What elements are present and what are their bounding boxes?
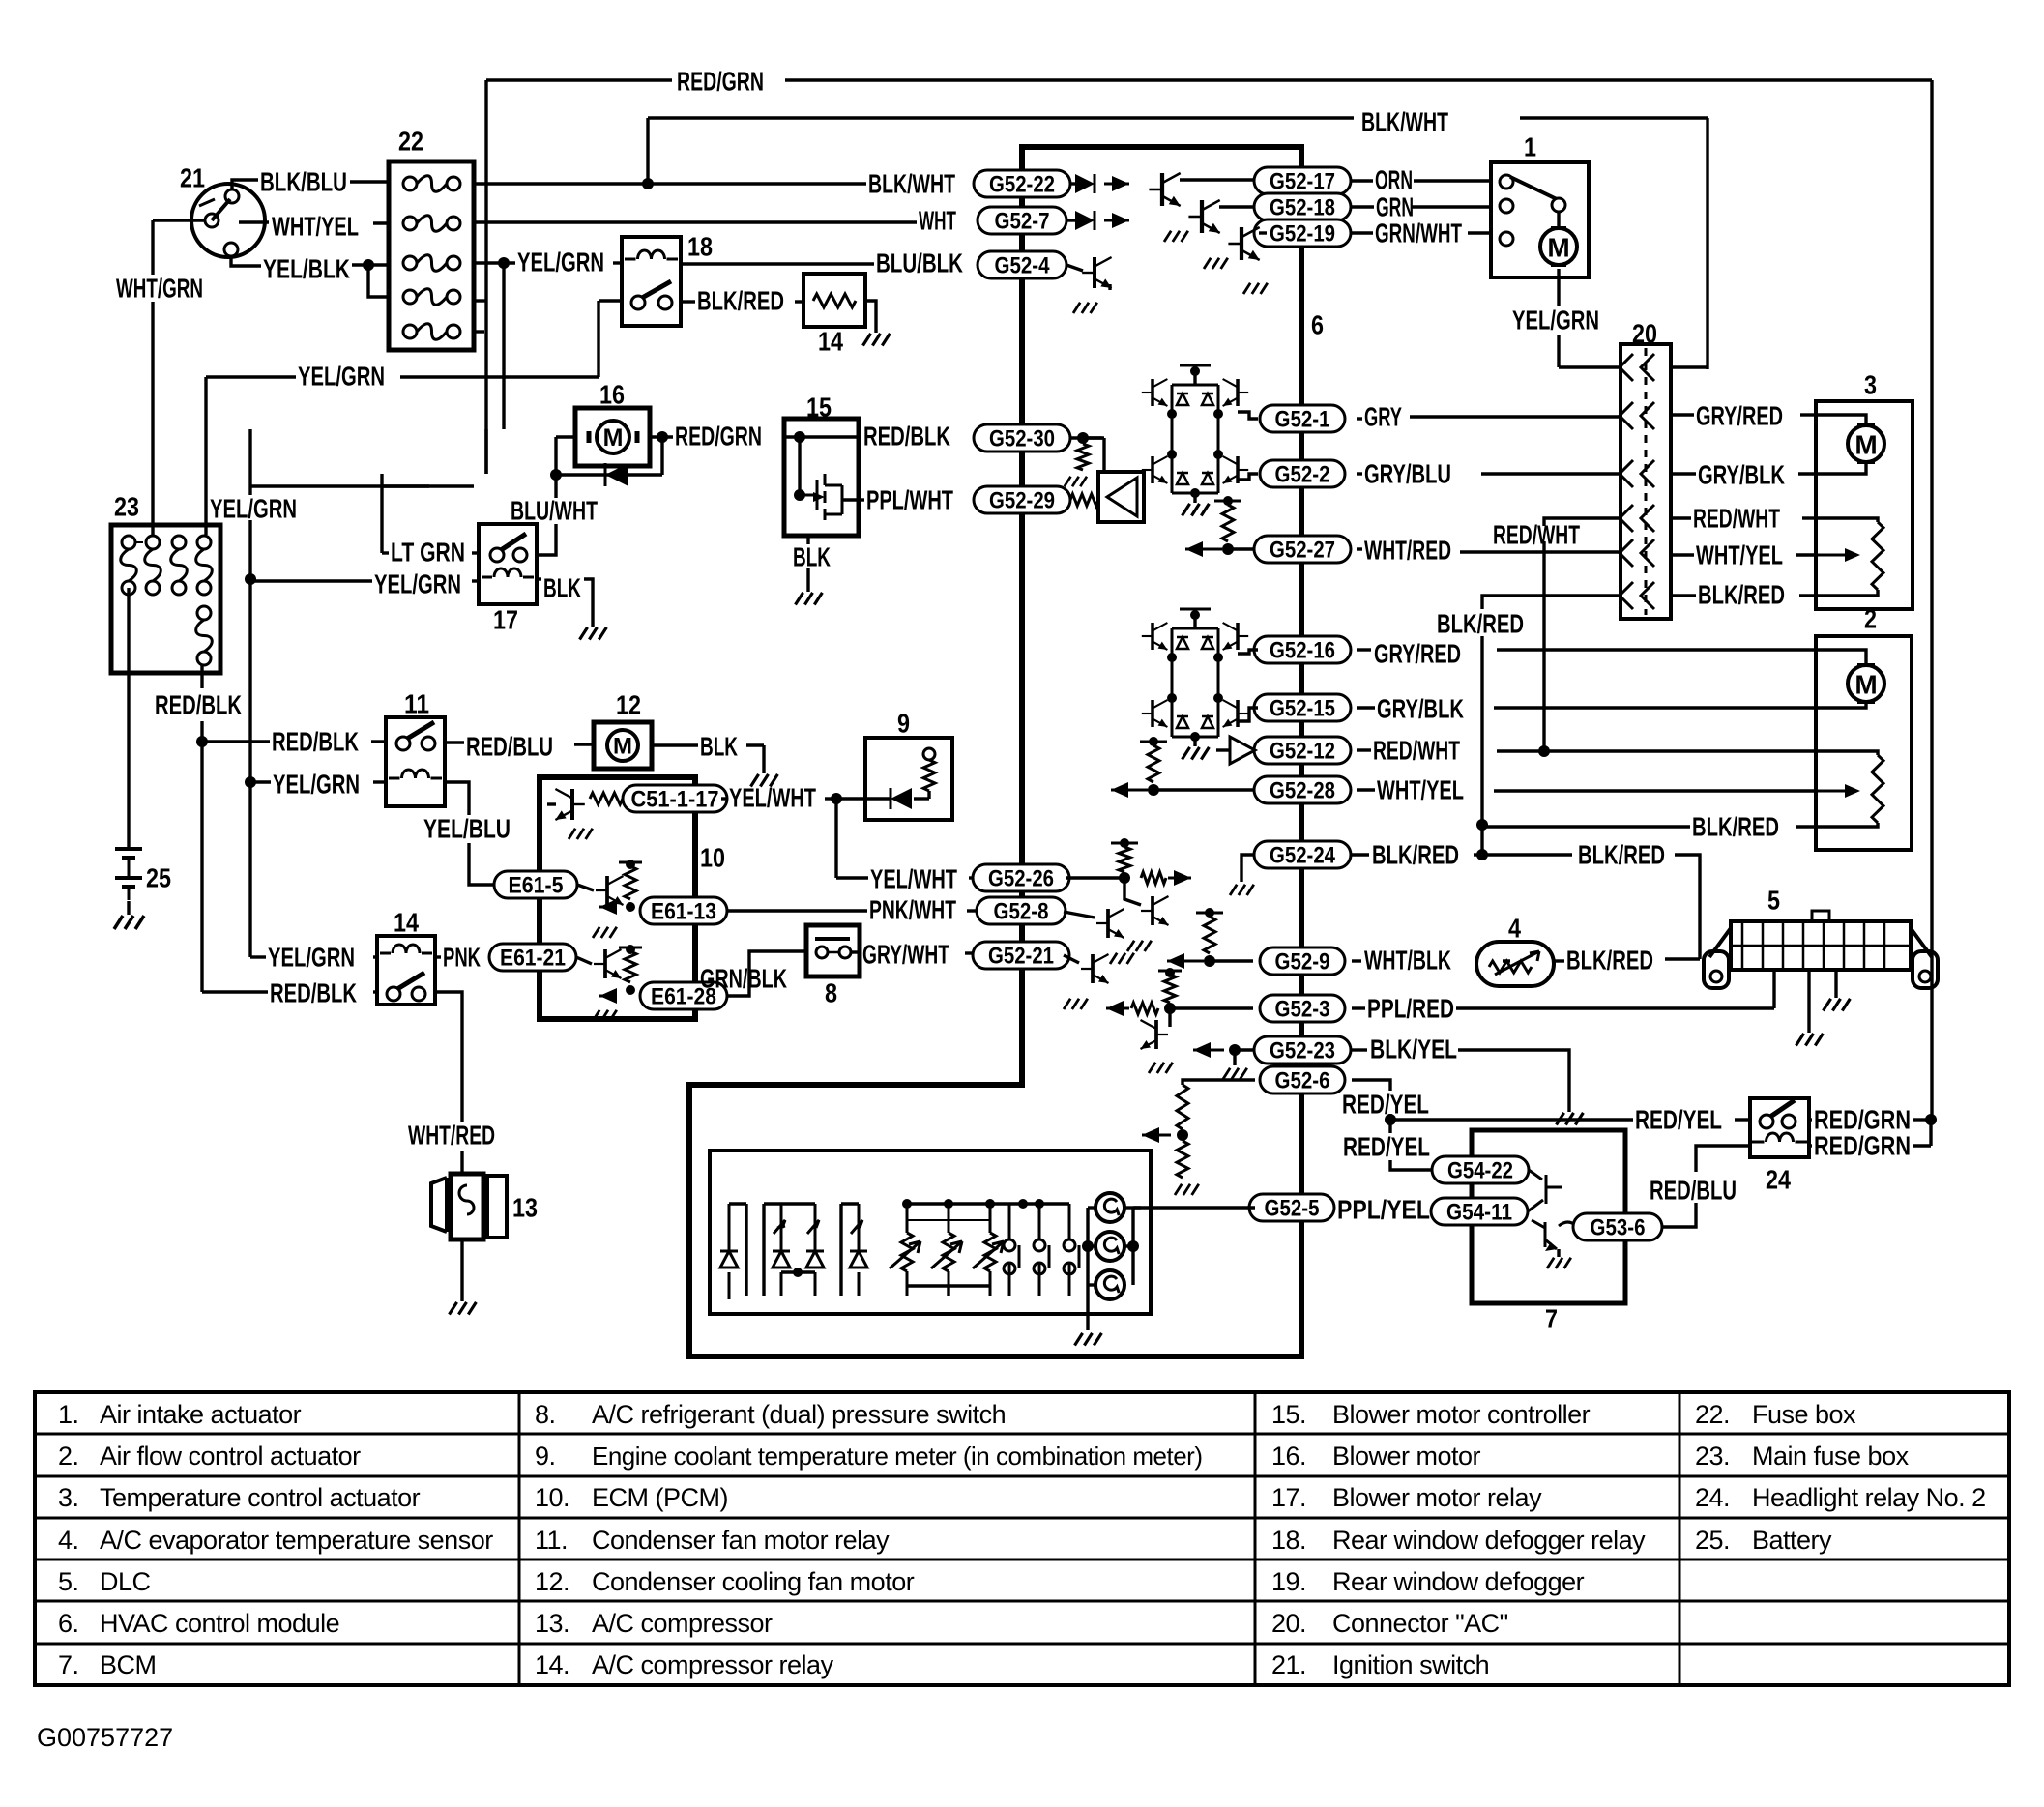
svg-text:BLK/WHT: BLK/WHT (1361, 107, 1448, 137)
svg-text:LT GRN: LT GRN (391, 538, 465, 568)
chevrons row y=380 (1620, 354, 1654, 381)
svg-text:PPL/RED: PPL/RED (1367, 994, 1454, 1024)
wire YEL/GRN long horizontal (206, 375, 296, 378)
svg-text:Main fuse box: Main fuse box (1752, 1442, 1910, 1471)
wire WHT/RED G52-27 to connector (1357, 547, 1362, 550)
svg-text:GRY/WHT: GRY/WHT (862, 940, 949, 970)
pill G52-15 (1254, 694, 1351, 721)
wire BLK/WHT fuse1 to module (474, 182, 646, 185)
svg-text:18.: 18. (1271, 1526, 1306, 1555)
pill C51-1-17 (623, 785, 727, 812)
wire RED/YEL to relay 24 (1390, 1118, 1633, 1121)
svg-text:WHT/BLK: WHT/BLK (1364, 946, 1451, 976)
pill G53-6 (1573, 1213, 1662, 1240)
headlight relay No.2 24 (1750, 1098, 1809, 1157)
svg-text:17.: 17. (1271, 1483, 1306, 1512)
wire RED/WHT branch down left of connector (1544, 518, 1621, 526)
svg-text:5.: 5. (58, 1567, 79, 1596)
wire BLK/RED connector to actuator 3 (1671, 594, 1696, 597)
wire YEL/GRN to relay 14 coil (250, 955, 266, 958)
wire BLK relay17 to ground (537, 577, 541, 580)
svg-text:22: 22 (398, 127, 423, 157)
wire BLK/RED G52-24 row (1352, 853, 1369, 856)
svg-text:GRY/RED: GRY/RED (1374, 639, 1461, 669)
svg-text:23: 23 (114, 492, 139, 522)
svg-text:G52-2: G52-2 (1275, 462, 1330, 488)
svg-text:12: 12 (616, 690, 641, 720)
pill G54-11 (1431, 1198, 1528, 1225)
wire WHT/YEL (239, 220, 269, 223)
transistor at G52-8 (1064, 912, 1095, 918)
MOSFET inside controller 15 (800, 474, 842, 520)
wire WHT/BLK G52-9 to sensor 4 (1352, 959, 1361, 962)
resistor arrow motif at G52-27 (1222, 543, 1234, 555)
pill G52-19 (1254, 219, 1351, 247)
wire GRY/RED to actuator 2 (1357, 648, 1371, 651)
svg-text:2: 2 (1864, 604, 1877, 634)
svg-text:BLK/RED: BLK/RED (1372, 840, 1459, 870)
svg-text:G52-16: G52-16 (1270, 638, 1335, 664)
svg-text:6: 6 (1311, 310, 1324, 340)
pill E61-28 (640, 982, 727, 1009)
svg-text:G52-3: G52-3 (1275, 997, 1330, 1023)
wire YEL/GRN actuator1 to connector 20 (1557, 269, 1560, 306)
svg-text:YEL/GRN: YEL/GRN (273, 770, 360, 800)
svg-text:13: 13 (512, 1193, 538, 1223)
svg-text:12.: 12. (535, 1567, 569, 1596)
svg-text:YEL/BLK: YEL/BLK (263, 254, 350, 284)
svg-text:YEL/BLU: YEL/BLU (423, 814, 511, 844)
DLC grounds (1807, 970, 1810, 1033)
svg-text:BLK/RED: BLK/RED (1437, 609, 1524, 639)
connector AC 20 (1621, 344, 1671, 619)
condenser cooling fan motor 12 (594, 722, 652, 769)
svg-text:BLU/WHT: BLU/WHT (511, 496, 598, 526)
svg-text:RED/WHT: RED/WHT (1693, 504, 1780, 534)
svg-text:Air flow control actuator: Air flow control actuator (100, 1442, 361, 1471)
svg-text:14: 14 (818, 327, 843, 357)
triangle at G52-12 (1230, 737, 1255, 764)
pill G52-1 (1260, 405, 1345, 432)
svg-text:M: M (1547, 233, 1569, 263)
wire RED/BLK controller to G52-30 (859, 435, 861, 438)
wire GRY/BLK to actuator 2 (1357, 706, 1375, 709)
BCM 7 (1472, 1130, 1625, 1303)
A/C pressure switch 8 (806, 925, 860, 976)
blower motor 16 (575, 408, 650, 466)
pill G52-7 (978, 207, 1066, 234)
panel LED 2 (806, 1204, 824, 1296)
pill G52-16 (1254, 636, 1351, 663)
panel diode 1 (720, 1204, 738, 1299)
resistor arrow motif at G52-28 (1148, 784, 1159, 796)
svg-text:GRY: GRY (1364, 402, 1402, 432)
svg-text:17: 17 (493, 605, 518, 635)
pill G52-30 (974, 424, 1070, 452)
wire WHT/YEL connector to actuator 3 (1671, 553, 1694, 556)
wire WHT/YEL to actuator 2 (1357, 788, 1375, 791)
svg-text:G52-17: G52-17 (1270, 169, 1335, 195)
pill E61-5 (494, 871, 577, 898)
svg-text:2.: 2. (58, 1442, 79, 1471)
H-bridge driver for G52-16/G52-15 (1180, 608, 1211, 611)
svg-text:BLK/BLU: BLK/BLU (260, 167, 347, 197)
svg-text:WHT/RED: WHT/RED (1364, 536, 1451, 566)
svg-text:Connector "AC": Connector "AC" (1332, 1609, 1508, 1638)
wire BLK/RED relay18 to resistor 14 (681, 300, 695, 303)
svg-text:13.: 13. (535, 1609, 569, 1638)
svg-text:BLK/RED: BLK/RED (1698, 580, 1785, 610)
svg-text:BLK/RED: BLK/RED (1692, 812, 1779, 842)
svg-text:GRY/BLU: GRY/BLU (1364, 459, 1451, 489)
wire PNK/WHT to G52-8 (727, 909, 867, 912)
transistor at G52-21 (1064, 955, 1079, 963)
svg-text:C51-1-17: C51-1-17 (631, 787, 719, 813)
A/C compressor relay 14 (377, 936, 435, 1005)
svg-text:A/C refrigerant (dual) pressur: A/C refrigerant (dual) pressure switch (592, 1400, 1006, 1429)
svg-text:G53-6: G53-6 (1591, 1215, 1646, 1241)
svg-text:YEL/GRN: YEL/GRN (374, 569, 461, 599)
fuse F4 in box 22 (403, 290, 417, 304)
svg-text:22.: 22. (1695, 1400, 1730, 1429)
svg-text:PNK: PNK (443, 943, 481, 973)
wire BLK/YEL G52-23 to ground (1352, 1048, 1367, 1051)
wire GRN G52-18 (1352, 205, 1374, 208)
svg-text:G52-6: G52-6 (1275, 1068, 1330, 1094)
wire YEL/BLU relay11 coil to E61-5 (445, 782, 469, 815)
potentiometer in actuator 3 (1816, 518, 1878, 522)
svg-text:Temperature control actuator: Temperature control actuator (100, 1483, 421, 1512)
svg-text:7.: 7. (58, 1650, 79, 1679)
svg-text:PPL/WHT: PPL/WHT (866, 485, 953, 515)
svg-text:Fuse box: Fuse box (1752, 1400, 1856, 1429)
wire BLK/RED sensor 4 to DLC branch (1554, 959, 1564, 962)
svg-text:WHT/YEL: WHT/YEL (1377, 775, 1464, 805)
wire GRN/BLK E61-28 to pressure switch 8 (727, 951, 806, 996)
svg-text:WHT/RED: WHT/RED (408, 1121, 495, 1151)
svg-text:G52-4: G52-4 (995, 253, 1051, 279)
svg-text:1.: 1. (58, 1400, 79, 1429)
wire YEL/GRN to relay 11 coil (250, 780, 271, 783)
svg-text:YEL/GRN: YEL/GRN (1512, 306, 1599, 335)
svg-text:G52-23: G52-23 (1270, 1038, 1335, 1064)
svg-text:BLK: BLK (700, 732, 738, 762)
chevrons row y=430 (1620, 402, 1654, 429)
pill G52-3 (1260, 995, 1345, 1022)
svg-text:16: 16 (599, 380, 625, 410)
fuse in box 23 col x=185 (172, 536, 186, 549)
pill G52-24 (1254, 841, 1351, 868)
svg-text:M: M (1854, 430, 1877, 460)
svg-text:RED/WHT: RED/WHT (1373, 736, 1460, 766)
pill G52-18 (1254, 193, 1351, 220)
svg-text:G52-22: G52-22 (989, 172, 1055, 198)
pill G52-21 (973, 942, 1069, 969)
diode bypass of motor 16 (556, 473, 662, 476)
A/C evaporator temperature sensor 4 (1476, 942, 1554, 986)
resistor to ground at G52-30 (1070, 436, 1102, 439)
svg-text:19.: 19. (1271, 1567, 1306, 1596)
wire GRY/BLU G52-2 to connector (1357, 472, 1362, 475)
transistor at G52-4 (1066, 265, 1083, 271)
svg-text:RED/BLK: RED/BLK (272, 727, 359, 757)
svg-text:A/C compressor: A/C compressor (592, 1609, 773, 1638)
wire BLK/RED to actuator 2 (1482, 825, 1690, 828)
svg-text:WHT/YEL: WHT/YEL (1696, 540, 1783, 570)
wire YEL/GRN vertical to relay coils (248, 429, 251, 495)
svg-text:15.: 15. (1271, 1400, 1306, 1429)
svg-text:WHT: WHT (919, 206, 956, 236)
fuse in box 23 col x=158 (146, 536, 160, 549)
svg-text:DLC: DLC (100, 1567, 151, 1596)
svg-text:11.: 11. (535, 1526, 568, 1555)
panel LED 1 (773, 1204, 790, 1296)
svg-text:Engine coolant temperature met: Engine coolant temperature meter (in com… (592, 1442, 1203, 1471)
svg-text:21.: 21. (1271, 1650, 1306, 1679)
svg-text:G52-28: G52-28 (1270, 778, 1335, 804)
fuse in box 23 col x=133 (122, 536, 135, 549)
svg-text:YEL/GRN: YEL/GRN (517, 248, 604, 277)
svg-text:3: 3 (1864, 370, 1877, 400)
svg-text:G52-7: G52-7 (995, 209, 1050, 235)
wire GRY/BLK connector to actuator 3 (1671, 472, 1696, 475)
wire YEL/GRN to relay 17 coil (250, 579, 372, 582)
pill G52-5 (1249, 1194, 1334, 1221)
chevrons row y=616 (1620, 582, 1654, 609)
wire BLK/RED branch down left of connector (1482, 596, 1621, 609)
svg-text:G52-1: G52-1 (1275, 407, 1330, 433)
svg-text:RED/GRN: RED/GRN (1814, 1131, 1911, 1161)
wire WHT/GRN (153, 219, 205, 221)
svg-text:PPL/YEL: PPL/YEL (1337, 1195, 1430, 1225)
svg-text:Headlight relay No. 2: Headlight relay No. 2 (1752, 1483, 1986, 1512)
wire GRY G52-1 to connector (1357, 417, 1362, 420)
svg-text:RED/GRN: RED/GRN (677, 67, 764, 97)
wire RED/BLK to relay 11 (202, 740, 270, 743)
pill E61-21 (489, 944, 576, 971)
wire RED/BLK from fuse box 23 (200, 665, 203, 688)
ground stub at G52-24 (1241, 855, 1253, 882)
junction YEL/BLK branch to fuse 4 (363, 259, 374, 271)
HVAC control panel box (710, 1151, 1151, 1314)
svg-text:G52-8: G52-8 (994, 899, 1049, 925)
pill G52-26 (973, 864, 1069, 891)
svg-text:YEL/WHT: YEL/WHT (870, 864, 957, 894)
svg-text:BLK: BLK (543, 573, 581, 603)
svg-text:7: 7 (1545, 1304, 1558, 1334)
svg-text:G52-30: G52-30 (989, 426, 1055, 452)
wire GRN/WHT G52-19 (1352, 231, 1373, 234)
pill G52-27 (1254, 536, 1351, 563)
engine coolant temp meter 9 (865, 738, 952, 820)
svg-text:A/C compressor relay: A/C compressor relay (592, 1650, 834, 1679)
svg-text:PNK/WHT: PNK/WHT (869, 895, 956, 925)
svg-text:RED/YEL: RED/YEL (1342, 1090, 1429, 1120)
svg-text:20.: 20. (1271, 1609, 1306, 1638)
transistor and resistor at C51-1-17 (590, 793, 623, 804)
resistor arrow motif at G52-9 (1204, 955, 1215, 967)
fuse in box 23 col x=211 (197, 536, 211, 549)
ECM (PCM) 10 (540, 777, 695, 1019)
wire BLU/WHT relay17 to motor 16 diode (539, 553, 556, 555)
svg-text:RED/GRN: RED/GRN (675, 422, 762, 452)
fuse F3 in box 22 (403, 256, 417, 270)
svg-text:G00757727: G00757727 (37, 1723, 173, 1752)
svg-text:G52-15: G52-15 (1270, 696, 1335, 722)
svg-text:G52-5: G52-5 (1265, 1196, 1320, 1222)
wire ORN G52-17 to actuator 1 (1352, 179, 1373, 182)
wire YEL/GRN net jogs (502, 263, 505, 429)
transistor cluster at E61-21/E61-28 (576, 957, 592, 964)
svg-text:ECM (PCM): ECM (PCM) (592, 1483, 728, 1512)
svg-text:YEL/GRN: YEL/GRN (210, 494, 297, 524)
wire PPL/WHT controller to G52-29 (842, 498, 859, 501)
ignition contacts and lever (225, 189, 239, 203)
panel LED 3 (850, 1204, 867, 1296)
svg-text:5: 5 (1767, 886, 1780, 916)
svg-text:E61-5: E61-5 (509, 873, 564, 899)
svg-text:9.: 9. (535, 1442, 556, 1471)
relay 18 (622, 237, 681, 326)
chevrons row y=536 (1620, 505, 1654, 532)
wire YEL/GRN fuse3 to relay 18 (474, 261, 515, 264)
panel ground (1086, 1285, 1089, 1330)
pill G52-12 (1254, 737, 1351, 764)
pill G52-4 (978, 251, 1066, 278)
svg-text:11: 11 (404, 689, 429, 719)
svg-text:G52-27: G52-27 (1270, 538, 1335, 564)
svg-text:BLK: BLK (793, 542, 831, 572)
svg-text:BLK/YEL: BLK/YEL (1370, 1035, 1457, 1064)
blower motor relay 17 (479, 524, 537, 604)
svg-text:Air intake actuator: Air intake actuator (100, 1400, 302, 1429)
panel switches (1004, 1239, 1015, 1251)
svg-text:M: M (603, 424, 624, 452)
svg-text:RED/BLU: RED/BLU (1650, 1176, 1737, 1206)
svg-text:M: M (1854, 670, 1877, 700)
wire PNK relay14 to E61-21 (435, 955, 441, 958)
svg-text:14: 14 (394, 908, 419, 938)
svg-text:A/C evaporator temperature sen: A/C evaporator temperature sensor (100, 1526, 493, 1555)
svg-text:4: 4 (1508, 914, 1521, 944)
temperature control actuator 3 (1816, 401, 1913, 609)
fuse F2 in box 22 (403, 217, 417, 230)
svg-text:BLU/BLK: BLU/BLK (876, 248, 963, 278)
A/C compressor 13 (431, 1178, 447, 1232)
svg-text:BLK/RED: BLK/RED (697, 286, 784, 316)
svg-text:YEL/GRN: YEL/GRN (298, 362, 385, 392)
transistor cluster at G52-26 (1066, 876, 1122, 879)
svg-text:18: 18 (687, 232, 713, 262)
svg-text:8.: 8. (535, 1400, 556, 1429)
svg-text:HVAC control module: HVAC control module (100, 1609, 339, 1638)
svg-text:M: M (613, 734, 632, 760)
svg-text:WHT/YEL: WHT/YEL (272, 212, 359, 242)
svg-text:G54-22: G54-22 (1447, 1158, 1513, 1184)
wire YEL/BLK (231, 256, 261, 266)
svg-text:24.: 24. (1695, 1483, 1730, 1512)
svg-text:G52-24: G52-24 (1270, 843, 1336, 869)
svg-text:GRY/BLK: GRY/BLK (1698, 460, 1785, 490)
wire WHT/RED relay14 to compressor 13 (435, 992, 462, 1122)
svg-text:10: 10 (700, 843, 725, 873)
svg-text:RED/BLK: RED/BLK (270, 978, 357, 1008)
svg-text:G52-19: G52-19 (1270, 221, 1335, 248)
wire BLU/BLK relay18 to G52-4 (681, 262, 874, 265)
pill E61-13 (640, 897, 727, 924)
wire RED/GRN feed to fuse rows 4,5 (473, 299, 486, 302)
svg-text:GRN/BLK: GRN/BLK (700, 964, 787, 994)
svg-text:BLK/WHT: BLK/WHT (868, 169, 955, 199)
svg-text:G52-29: G52-29 (989, 488, 1055, 514)
svg-text:E61-13: E61-13 (651, 899, 716, 925)
svg-text:RED/BLK: RED/BLK (863, 422, 950, 452)
wire BLK/WHT top bus (648, 116, 1354, 119)
wire RED/GRN top bus (486, 78, 672, 81)
HVAC control module 6 outline (689, 147, 1301, 1356)
main fuse box 23 (111, 525, 220, 673)
chevrons row y=572 (1620, 539, 1654, 567)
panel potentiometers (906, 1204, 909, 1296)
wire GRY/WHT switch8 to G52-21 (851, 950, 861, 953)
pill G52-6 (1260, 1066, 1345, 1093)
wire RED/BLK to relay 14 switch (202, 990, 268, 993)
svg-text:Battery: Battery (1752, 1526, 1832, 1555)
svg-text:GRY/RED: GRY/RED (1696, 401, 1783, 431)
svg-text:23.: 23. (1695, 1442, 1730, 1471)
pill G52-22 (974, 170, 1070, 197)
svg-text:RED/WHT: RED/WHT (1493, 520, 1580, 550)
svg-text:9: 9 (897, 709, 910, 739)
svg-text:G54-11: G54-11 (1446, 1200, 1512, 1226)
svg-text:20: 20 (1632, 319, 1657, 349)
ground at resistor 14 (865, 301, 876, 333)
svg-text:Condenser cooling fan motor: Condenser cooling fan motor (592, 1567, 915, 1596)
svg-text:RED/YEL: RED/YEL (1343, 1132, 1430, 1162)
wire RED/GRN motor16 to controller 15 (650, 435, 673, 438)
svg-text:25: 25 (146, 863, 171, 893)
pill G52-28 (1254, 776, 1351, 803)
pill G52-17 (1254, 167, 1351, 194)
condenser fan motor relay 11 (386, 717, 445, 806)
svg-text:10.: 10. (535, 1483, 569, 1512)
transistor cluster at E61-5/E61-13 (577, 885, 594, 890)
wire BLK from motor 12 to ground (652, 743, 698, 746)
svg-text:Condenser fan motor relay: Condenser fan motor relay (592, 1526, 890, 1555)
pill G52-29 (974, 486, 1070, 513)
svg-text:G52-18: G52-18 (1270, 195, 1335, 221)
resistor arrow transistor at G52-3 (1164, 1003, 1176, 1014)
svg-text:YEL/GRN: YEL/GRN (268, 943, 355, 973)
wire RED/WHT connector to actuator 3 (1671, 516, 1691, 519)
wire RED/GRN relay 24 top (1809, 1118, 1812, 1121)
blower motor controller 15 (784, 419, 859, 536)
svg-text:21: 21 (180, 163, 205, 193)
svg-text:GRY/BLK: GRY/BLK (1377, 694, 1464, 724)
wire RED/GRN relay 24 bottom (1929, 1120, 1932, 1146)
svg-text:RED/BLU: RED/BLU (466, 732, 553, 762)
fuse F1 in box 22 (403, 177, 417, 190)
svg-text:Blower motor relay: Blower motor relay (1332, 1483, 1542, 1512)
wire RED/BLU relay11 to motor 12 (445, 741, 464, 743)
svg-text:Rear window defogger: Rear window defogger (1332, 1567, 1585, 1596)
potentiometer in actuator 2 (1816, 751, 1878, 755)
air flow control actuator 2 (1816, 636, 1912, 850)
resistor arrow motif at G52-6 (1183, 1080, 1255, 1085)
wire panel to G52-5 (1133, 1206, 1255, 1209)
svg-text:3.: 3. (58, 1483, 79, 1512)
svg-text:4.: 4. (58, 1526, 79, 1555)
